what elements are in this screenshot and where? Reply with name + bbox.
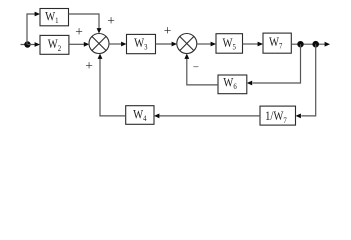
arrow into W2 — [35, 42, 40, 47]
arrow into W1 — [35, 12, 40, 17]
wire node C down and left to 1/W7 — [301, 44, 315, 116]
arrow into summer 1 left — [84, 42, 89, 47]
label W5 — [222, 36, 236, 52]
label W7 — [269, 35, 283, 51]
label W6 — [223, 76, 237, 92]
block W4 — [126, 106, 154, 125]
arrow into W3 — [121, 42, 126, 47]
svg-text:+: + — [75, 24, 83, 39]
node C output branch — [312, 41, 319, 48]
block W3 — [127, 34, 156, 53]
arrow into summer 2 left — [172, 42, 177, 47]
arrow into W5 — [211, 42, 216, 47]
arrow into summer 1 top — [97, 28, 102, 33]
wire W3 output to summer 2 — [156, 43, 173, 45]
summing junction 2 — [177, 34, 197, 54]
block 1/W7 — [260, 106, 296, 125]
label 1/W7 — [265, 109, 287, 125]
wire summer 1 to W3 — [109, 43, 122, 45]
wire node A to W2 — [28, 44, 36, 46]
arrow into 1/W7 right — [296, 114, 301, 119]
wire W4 output left and up to summer 1 bottom — [100, 58, 126, 116]
block W5 — [216, 34, 243, 54]
summing junction 1 — [89, 34, 109, 54]
arrow into W4 right — [154, 114, 159, 119]
label W1 — [45, 10, 59, 26]
wire node B down and left to W6 — [253, 44, 301, 83]
wire node A up to W1 row — [27, 14, 35, 45]
node A input branch dot — [24, 41, 30, 47]
label W3 — [134, 36, 148, 52]
wire W1 output to summing junction 1 top — [69, 14, 100, 30]
label W2 — [48, 37, 62, 53]
label W4 — [133, 108, 147, 124]
output arrow — [325, 42, 330, 47]
arrow into W7 — [258, 42, 263, 47]
wire summer 2 to W5 — [197, 43, 212, 45]
wire W7 output to output arrow — [291, 43, 325, 45]
svg-text:+: + — [85, 58, 93, 73]
wire W6 output left and up to summer 2 bottom — [187, 58, 218, 85]
block W1 — [40, 9, 69, 26]
wire 1/W7 output to W4 — [160, 115, 261, 117]
block W2 — [40, 35, 69, 54]
arrow into W6 right — [247, 81, 252, 86]
wire input stub — [21, 44, 28, 46]
wire W2 output to summer 1 — [69, 43, 85, 45]
svg-text:+: + — [107, 13, 115, 28]
svg-text:+: + — [164, 23, 172, 38]
wire W5 output to W7 — [243, 43, 259, 45]
block W7 — [263, 33, 291, 53]
svg-text:−: − — [193, 61, 199, 73]
block W6 — [218, 75, 247, 94]
arrow into summer 1 bottom — [98, 54, 103, 59]
node B after W7 — [297, 41, 303, 47]
arrow into summer 2 bottom — [184, 54, 189, 59]
